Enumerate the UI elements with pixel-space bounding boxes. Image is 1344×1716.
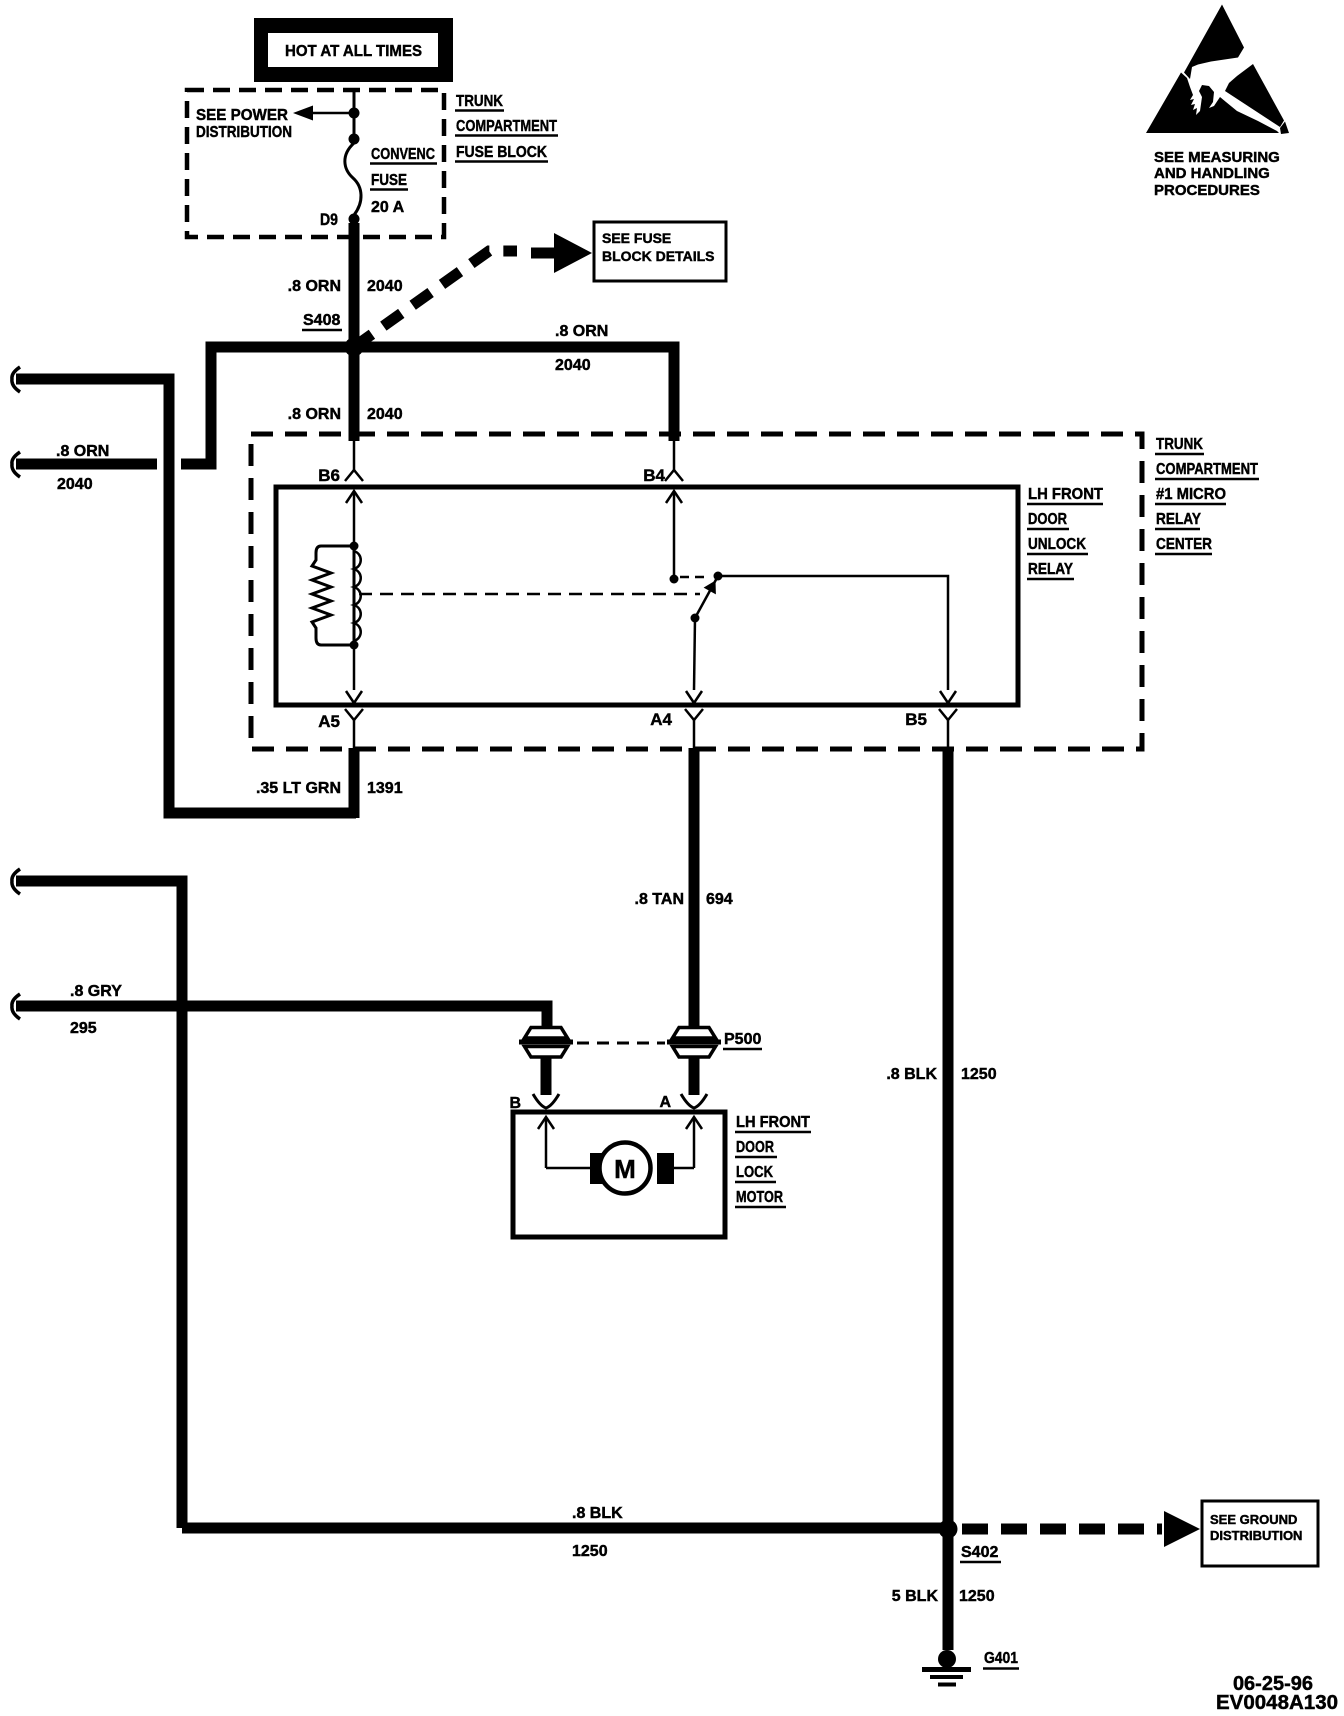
arrow into ground distribution box [1164, 1511, 1200, 1547]
motor M circle [600, 1143, 651, 1194]
svg-text:TRUNK: TRUNK [456, 93, 503, 110]
lh front door unlock relay inner box [276, 487, 1018, 705]
pin B fork into motor [533, 1094, 559, 1108]
svg-text:2040: 2040 [367, 278, 403, 295]
svg-text:SEE FUSE: SEE FUSE [602, 230, 671, 246]
pin A4 connector fork [650, 709, 703, 748]
motor brush left [590, 1153, 607, 1184]
svg-text:MOTOR: MOTOR [736, 1189, 783, 1206]
pin B5 connector fork [905, 709, 957, 748]
svg-text:.8 GRY: .8 GRY [70, 983, 122, 1000]
connector P500 half B [519, 1028, 573, 1058]
svg-text:DISTRIBUTION: DISTRIBUTION [196, 124, 292, 141]
dashed connector linkage [577, 1042, 665, 1045]
svg-text:BLOCK DETAILS: BLOCK DETAILS [602, 248, 715, 264]
node B4 contact dot [670, 575, 679, 584]
motor brush right [657, 1153, 674, 1184]
svg-text:20 A: 20 A [371, 199, 405, 216]
svg-text:.8 ORN: .8 ORN [288, 278, 341, 295]
relay coil [312, 542, 361, 650]
see fuse block details box [594, 222, 726, 281]
wire D9 to S408 (thick) [349, 223, 360, 347]
svg-text:S402: S402 [961, 1544, 998, 1561]
svg-text:UNLOCK: UNLOCK [1028, 536, 1086, 553]
svg-text:TRUNK: TRUNK [1156, 436, 1203, 453]
relay switch armature [691, 576, 719, 623]
pin A male arrow inside motor [686, 1117, 702, 1168]
svg-text:1250: 1250 [572, 1543, 608, 1560]
svg-text:RELAY: RELAY [1028, 561, 1073, 578]
svg-text:A: A [659, 1094, 671, 1111]
node D9 dot [349, 214, 360, 225]
svg-text:CENTER: CENTER [1156, 536, 1212, 553]
svg-text:SEE POWER: SEE POWER [196, 107, 288, 124]
hot-at-all-times box [254, 18, 453, 82]
svg-text:1250: 1250 [961, 1066, 997, 1083]
svg-text:RELAY: RELAY [1156, 511, 1201, 528]
svg-text:A5: A5 [318, 712, 340, 731]
svg-text:S408: S408 [303, 312, 340, 329]
pin B5 male arrow at bottom edge [940, 691, 956, 703]
wire to motor brushes [546, 1167, 592, 1170]
svg-text:B6: B6 [318, 466, 340, 485]
svg-text:M: M [614, 1154, 636, 1184]
node dot top [349, 108, 360, 119]
wire off-page (lt grn return) top-left [16, 379, 356, 813]
dashed wire to fuse block details [354, 251, 517, 347]
wire S402 to ground (5 BLK 1250) [943, 1529, 954, 1650]
svg-text:2040: 2040 [555, 357, 591, 374]
label LH FRONT DOOR UNLOCK RELAY [1027, 486, 1103, 579]
svg-text:.8 BLK: .8 BLK [886, 1066, 937, 1083]
svg-text:D9: D9 [320, 210, 338, 229]
svg-text:DOOR: DOOR [736, 1139, 774, 1156]
relay switch pivot dot [714, 572, 723, 581]
off-page arrow (gry) [12, 994, 20, 1019]
ground G401 [922, 1650, 971, 1685]
trunk compartment fuse block dashed box [187, 90, 444, 237]
svg-text:G401: G401 [984, 1650, 1018, 1667]
label SEE MEASURING AND HANDLING PROCEDURES [1154, 149, 1280, 199]
svg-text:DISTRIBUTION: DISTRIBUTION [1210, 1528, 1302, 1543]
svg-text:.8 ORN: .8 ORN [555, 323, 608, 340]
wire switch contact to B5 [718, 576, 948, 690]
pin A4 male arrow at bottom edge [686, 691, 702, 703]
wire S408 to right branch [354, 347, 674, 441]
svg-text:.35 LT GRN: .35 LT GRN [256, 780, 341, 797]
wire A4 down to P500 (.8 TAN 694) [689, 748, 700, 1030]
svg-text:295: 295 [70, 1020, 97, 1037]
svg-text:B4: B4 [643, 466, 665, 485]
svg-text:A4: A4 [650, 710, 672, 729]
svg-text:SEE GROUND: SEE GROUND [1210, 1512, 1297, 1527]
node S408 junction [345, 338, 364, 357]
connector P500 half A [667, 1028, 721, 1058]
wire fuse feed (thin) [353, 91, 356, 142]
svg-text:FUSE BLOCK: FUSE BLOCK [456, 144, 547, 161]
svg-text:.8 ORN: .8 ORN [288, 406, 341, 423]
wire armature to A4 [694, 618, 695, 690]
label CONVENC FUSE 20 A [370, 146, 437, 216]
svg-text:.8 ORN: .8 ORN [56, 443, 109, 460]
wire off-page gry feed (left, mid) [16, 881, 182, 1528]
pin B male arrow inside motor [538, 1117, 554, 1168]
off-page arrow (mid-left) [12, 869, 20, 894]
fuse CONVENC 20A (s-curve) [345, 143, 361, 215]
svg-text:CONVENC: CONVENC [371, 146, 435, 163]
svg-text:5 BLK: 5 BLK [892, 1588, 939, 1605]
node dot fuse top [349, 134, 360, 145]
wire .8 GRY 295 to motor [16, 1006, 547, 1030]
label SEE POWER DISTRIBUTION [196, 107, 292, 141]
svg-text:1250: 1250 [959, 1588, 995, 1605]
svg-text:694: 694 [706, 891, 733, 908]
pin B6 connector fork [318, 441, 363, 485]
svg-text:COMPARTMENT: COMPARTMENT [1156, 461, 1258, 478]
contact gap dash [680, 576, 710, 579]
node S402 junction [939, 1520, 958, 1539]
wire left off-page segment [16, 459, 157, 470]
wire bottom .8 BLK 1250 to S402 [182, 1523, 948, 1534]
see ground distribution box [1202, 1501, 1318, 1566]
svg-text:2040: 2040 [57, 476, 93, 493]
label LH FRONT DOOR LOCK MOTOR [735, 1114, 811, 1207]
wire B5 down to S402 (.8 BLK 1250) [943, 748, 954, 1531]
arrow to see fuse block details [531, 248, 558, 259]
svg-text:P500: P500 [724, 1031, 761, 1048]
svg-text:2040: 2040 [367, 406, 403, 423]
svg-text:EV0048A130: EV0048A130 [1216, 1692, 1338, 1714]
svg-text:.8 TAN: .8 TAN [635, 891, 684, 908]
svg-text:B5: B5 [905, 710, 927, 729]
wire S408 down to B6 [349, 347, 360, 441]
svg-text:COMPARTMENT: COMPARTMENT [456, 118, 557, 135]
pin A5 connector fork [318, 709, 363, 748]
off-page arrow (top-left) [12, 367, 20, 392]
svg-text:PROCEDURES: PROCEDURES [1154, 182, 1260, 199]
wire S408 left branch to off-page [181, 347, 354, 464]
pin A fork into motor [681, 1094, 707, 1108]
pin B6 male arrow into relay [346, 491, 362, 546]
pin A5 male arrow at bottom edge [346, 691, 362, 703]
mechanical linkage dashed [359, 593, 700, 596]
ESD warning triangle symbol [1146, 5, 1289, 135]
pin B4 connector fork [643, 441, 683, 485]
wire arrow to see power distribution [305, 112, 354, 115]
svg-text:LH FRONT: LH FRONT [736, 1114, 810, 1131]
svg-text:SEE MEASURING: SEE MEASURING [1154, 149, 1280, 166]
svg-text:B: B [509, 1095, 521, 1112]
wire A5 down and left to off-page (.35 LT GRN 1391) [349, 748, 360, 818]
svg-text:#1 MICRO: #1 MICRO [1156, 486, 1226, 503]
lh front door lock motor box [513, 1112, 725, 1237]
svg-text:.8 BLK: .8 BLK [572, 1505, 623, 1522]
pin B4 male arrow into relay [666, 491, 682, 579]
dashed wire to ground distribution [962, 1524, 1162, 1535]
trunk compartment #1 micro relay center dashed box [251, 434, 1142, 749]
svg-text:HOT AT ALL TIMES: HOT AT ALL TIMES [285, 43, 422, 60]
svg-text:LOCK: LOCK [736, 1164, 773, 1181]
off-page arrow (.8 ORN) [12, 452, 20, 477]
wire coil to A5 arrow [353, 645, 356, 690]
label TRUNK COMPARTMENT #1 MICRO RELAY CENTER [1155, 436, 1259, 554]
svg-text:AND HANDLING: AND HANDLING [1154, 165, 1270, 182]
svg-text:DOOR: DOOR [1028, 511, 1067, 528]
svg-text:1391: 1391 [367, 780, 403, 797]
label TRUNK COMPARTMENT FUSE BLOCK [455, 93, 558, 162]
svg-text:FUSE: FUSE [371, 172, 407, 189]
svg-text:LH FRONT: LH FRONT [1028, 486, 1103, 503]
wire stubs through P500 [541, 1056, 552, 1095]
